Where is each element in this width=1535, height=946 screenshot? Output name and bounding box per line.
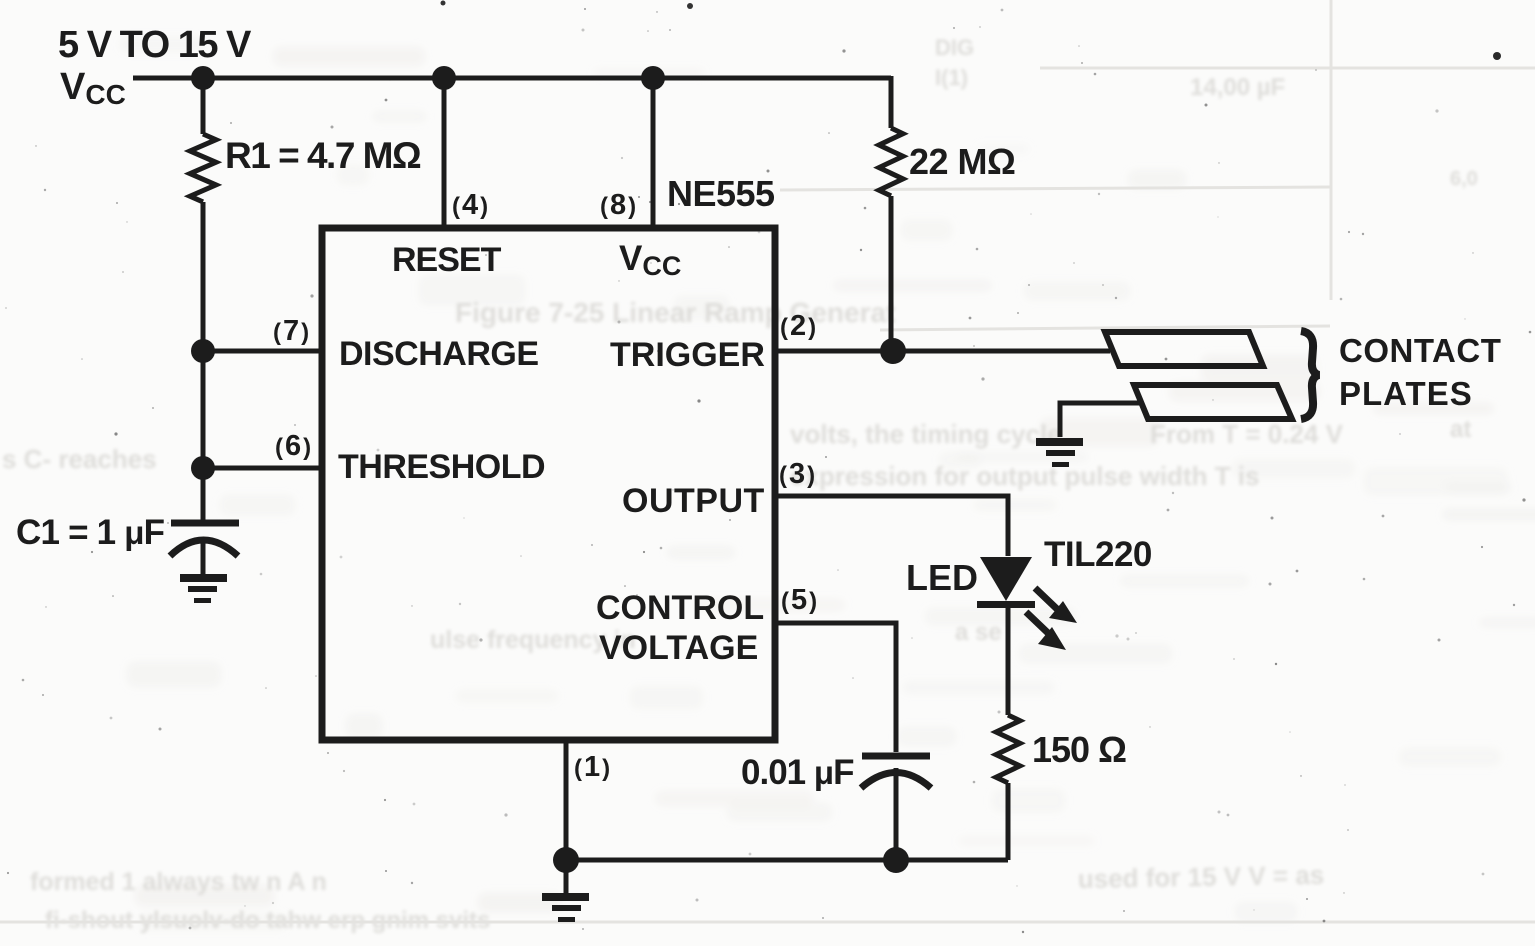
wire pin 7 discharge: [203, 349, 322, 354]
svg-text:DISCHARGE: DISCHARGE: [339, 335, 539, 373]
svg-text:TIL220: TIL220: [1044, 535, 1152, 574]
svg-text:5 V TO 15 V: 5 V TO 15 V: [58, 24, 252, 66]
svg-text:used for 15 V V = as: used for 15 V V = as: [1078, 860, 1325, 894]
svg-text:a se: a se: [955, 619, 1002, 646]
wire LED to 150 ohm: [1006, 604, 1011, 715]
ground C1: [180, 574, 227, 582]
svg-text:From T = 0.24 V: From T = 0.24 V: [1150, 419, 1344, 449]
svg-text:at: at: [1450, 416, 1471, 443]
wire pin 4 drop: [442, 78, 447, 228]
capacitor 0.01uF: [861, 756, 931, 860]
node junction threshold: [191, 456, 215, 480]
svg-text:OUTPUT: OUTPUT: [622, 482, 765, 520]
contact plate upper: [1105, 332, 1263, 366]
svg-text:(3): (3): [779, 458, 817, 490]
svg-text:Figure 7-25 Linear Ramp Gener: Figure 7-25 Linear Ramp Generat: [455, 297, 895, 328]
svg-text:14,00 µF: 14,00 µF: [1190, 74, 1285, 101]
svg-text:6,0: 6,0: [1450, 168, 1478, 190]
wire output to LED: [775, 496, 1008, 556]
svg-text:I(1): I(1): [935, 65, 968, 90]
brace contact plates: [1301, 331, 1319, 419]
node junction VCC/R1: [191, 66, 215, 90]
wire lower plate to ground: [1060, 403, 1143, 437]
svg-text:(5): (5): [781, 584, 819, 616]
svg-text:(1): (1): [574, 751, 612, 783]
svg-text:CONTROL: CONTROL: [596, 589, 764, 627]
svg-text:CONTACT: CONTACT: [1339, 332, 1501, 369]
svg-text:formed 1 always tw n A n: formed 1 always tw n A n: [30, 868, 327, 896]
svg-text:(4): (4): [452, 189, 490, 221]
svg-text:RESET: RESET: [392, 241, 502, 279]
wire control voltage to cap: [775, 623, 896, 752]
svg-text:(6): (6): [275, 430, 313, 462]
node junction pin8: [641, 66, 665, 90]
wire trigger to contact plate: [775, 349, 1110, 354]
wire pin 8 drop: [651, 78, 656, 228]
LED D1 TIL220: [977, 557, 1077, 650]
svg-text:s C- reaches: s C- reaches: [2, 444, 157, 474]
svg-text:PLATES: PLATES: [1339, 375, 1473, 412]
node junction discharge: [191, 339, 215, 363]
svg-text:TRIGGER: TRIGGER: [610, 336, 765, 374]
svg-text:150 Ω: 150 Ω: [1032, 729, 1126, 770]
ground contact plate: [1036, 438, 1083, 446]
svg-text:expression for output pulse wi: expression for output pulse width T is: [790, 461, 1259, 491]
svg-text:R1 = 4.7 MΩ: R1 = 4.7 MΩ: [225, 135, 421, 176]
svg-text:VOLTAGE: VOLTAGE: [599, 629, 758, 667]
svg-text:NE555: NE555: [667, 173, 775, 214]
svg-text:LED: LED: [906, 557, 978, 598]
node junction trigger/22M: [880, 338, 906, 364]
svg-text:THRESHOLD: THRESHOLD: [338, 448, 545, 486]
svg-text:(2): (2): [780, 310, 818, 342]
wire 22M to trigger node: [889, 196, 894, 351]
wire pin 1 down: [564, 740, 569, 860]
svg-text:0.01 μF: 0.01 μF: [741, 753, 854, 792]
node junction pin1/ground: [553, 847, 579, 873]
capacitor C1: [170, 468, 239, 576]
wire 150 ohm to bottom rail: [1006, 783, 1011, 860]
resistor R1: [190, 78, 216, 468]
svg-text:22 MΩ: 22 MΩ: [909, 141, 1015, 182]
wire VCC rail: [133, 76, 891, 81]
svg-text:C1 = 1 μF: C1 = 1 μF: [16, 513, 165, 552]
contact plate lower: [1134, 385, 1292, 419]
ground pin 1: [542, 893, 589, 901]
wire junction to ground: [564, 860, 569, 894]
resistor 22M: [879, 128, 903, 196]
node junction cap/rail: [883, 847, 909, 873]
resistor 150 ohm: [996, 715, 1020, 783]
speck top edge (decorative): [687, 3, 693, 9]
node junction pin4: [432, 66, 456, 90]
wire bottom rail: [566, 858, 1008, 863]
svg-text:(8): (8): [600, 189, 638, 221]
svg-text:DIG: DIG: [935, 35, 974, 60]
wire rail to 22M resistor: [889, 76, 894, 128]
svg-text:volts, the timing cycle: volts, the timing cycle: [790, 419, 1062, 449]
svg-text:(7): (7): [273, 315, 311, 347]
IC NE555 box: [322, 228, 775, 740]
wire pin 6 threshold: [203, 466, 322, 471]
